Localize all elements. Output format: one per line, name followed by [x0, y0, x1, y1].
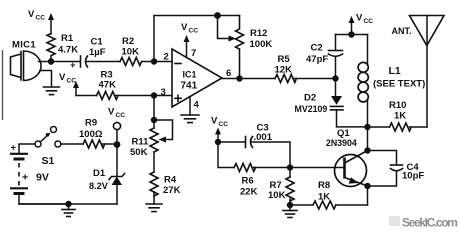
op-amp IC1 741: [161, 48, 232, 111]
wire R4 to ground: [153, 192, 155, 204]
svg-text:V: V: [181, 22, 188, 33]
node feedback top junction: [214, 12, 221, 19]
wire mic output to node A: [39, 61, 52, 63]
node R6/R7/C3 junction: [287, 164, 293, 170]
svg-text:CC: CC: [116, 112, 126, 119]
node B junction (feedback tap): [151, 58, 157, 64]
wire Vcc junction down to R6: [218, 142, 234, 168]
capacitor C4: [368, 151, 425, 187]
resistor R2: [120, 36, 142, 66]
wire pin 6 output: [222, 78, 275, 80]
node pin3 junction: [151, 92, 157, 98]
Vcc symbol above pin 7: [181, 22, 198, 58]
ground (R7): [283, 205, 297, 218]
svg-text:3: 3: [161, 87, 166, 98]
svg-text:S1: S1: [42, 155, 55, 167]
wire pin3 down to R11: [153, 96, 155, 129]
svg-text:R4: R4: [164, 175, 177, 186]
wire R11 to R4: [153, 152, 155, 172]
svg-text:V: V: [108, 107, 115, 118]
svg-text:+: +: [22, 172, 28, 184]
svg-text:R2: R2: [122, 36, 134, 47]
svg-text:CC: CC: [189, 28, 199, 35]
svg-text:1K: 1K: [318, 192, 330, 203]
svg-text:(SEE TEXT): (SEE TEXT): [373, 79, 425, 90]
svg-text:10pF: 10pF: [402, 171, 424, 182]
svg-text:22K: 22K: [240, 187, 258, 198]
svg-text:IC1: IC1: [183, 70, 197, 80]
node A junction: [48, 58, 54, 64]
page border left edge: [2, 50, 4, 120]
svg-text:MV2109: MV2109: [295, 104, 328, 114]
svg-text:10K: 10K: [268, 190, 286, 201]
wire node A to C1: [51, 61, 80, 63]
svg-text:6: 6: [226, 68, 231, 79]
node L1 bottom junction: [364, 124, 370, 130]
svg-text:2N3904: 2N3904: [326, 138, 357, 148]
svg-text:9V: 9V: [36, 172, 49, 184]
Vcc symbol above C3: [211, 116, 228, 143]
capacitor C3: [218, 123, 290, 168]
svg-text:1µF: 1µF: [89, 47, 106, 58]
svg-text:741: 741: [181, 81, 198, 92]
svg-text:47pF: 47pF: [306, 54, 328, 65]
watermark SeekIC.com: [389, 216, 400, 226]
svg-text:27K: 27K: [163, 185, 181, 196]
capacitor C1: [70, 37, 106, 72]
wire base: [290, 167, 345, 169]
bottom rail: [19, 203, 117, 205]
Vcc symbol above R3: [59, 72, 79, 96]
node Vcc output junction: [114, 141, 121, 148]
svg-text:+: +: [70, 60, 76, 71]
svg-text:R11: R11: [132, 137, 150, 148]
svg-text:+: +: [11, 143, 17, 154]
antenna ANT: [392, 16, 445, 128]
svg-text:CC: CC: [67, 78, 77, 85]
svg-text:CC: CC: [36, 15, 46, 22]
svg-text:CC: CC: [219, 121, 229, 128]
resistor R6: [234, 164, 258, 198]
node R11 top tap: [151, 117, 157, 123]
svg-text:8.2V: 8.2V: [89, 181, 109, 191]
svg-text:V: V: [59, 72, 66, 83]
svg-text:CC: CC: [364, 18, 374, 25]
resistor R5: [275, 54, 297, 83]
capacitor C2: [306, 35, 343, 79]
svg-text:R8: R8: [318, 180, 330, 191]
resistor R3: [76, 70, 172, 100]
resistor R4: [150, 172, 181, 196]
svg-text:R12: R12: [250, 28, 267, 39]
Vcc terminal circle: [108, 107, 125, 145]
Vcc symbol top-left: [28, 9, 54, 34]
transistor Q1 2N3904: [326, 128, 368, 187]
svg-text:ANT.: ANT.: [392, 26, 412, 36]
wire R2 to pin 2: [142, 61, 173, 63]
svg-text:1K: 1K: [394, 111, 406, 122]
battery +9V: [10, 143, 69, 205]
wire top rail to L1/C2: [336, 34, 368, 36]
svg-text:R9: R9: [85, 118, 97, 129]
svg-text:V: V: [28, 9, 35, 20]
node output junction: [236, 75, 242, 81]
wire R6 to R7 node: [254, 167, 291, 169]
resistor R9: [79, 118, 117, 149]
node Vcc tap top right: [348, 31, 354, 37]
ground (R4): [146, 204, 162, 212]
wire emitter down to R8: [367, 186, 369, 205]
ground (microphone): [44, 87, 60, 95]
svg-text:R10: R10: [389, 100, 406, 111]
potentiometer R11: [130, 120, 173, 158]
resistor R7: [268, 168, 294, 206]
svg-text:R1: R1: [61, 33, 74, 44]
wire S1 to R9: [61, 143, 83, 145]
svg-text:47K: 47K: [99, 80, 117, 91]
svg-text:D1: D1: [93, 168, 106, 179]
resistor R1: [47, 33, 78, 64]
resistor R8: [290, 180, 368, 209]
svg-text:V: V: [211, 116, 218, 127]
svg-text:R6: R6: [242, 176, 254, 187]
wire pin 4 to ground: [189, 97, 191, 115]
svg-text:R5: R5: [278, 54, 291, 65]
svg-text:L1: L1: [389, 65, 401, 77]
wire L1 bottom to collector: [367, 127, 369, 151]
svg-text:MIC1: MIC1: [12, 40, 36, 51]
svg-text:4.7K: 4.7K: [58, 45, 78, 56]
svg-text:SeekIC.com: SeekIC.com: [402, 216, 457, 230]
zener diode D1 8.2V: [89, 145, 125, 205]
svg-text:4: 4: [194, 100, 200, 111]
svg-text:2: 2: [164, 52, 169, 63]
wire C1 to R2: [86, 61, 120, 63]
node R7/R8 junction: [287, 202, 293, 208]
microphone MIC1: [11, 40, 42, 81]
ground (op-amp pin 4): [181, 115, 199, 123]
svg-text:7: 7: [191, 48, 196, 59]
node C2/D2 junction: [332, 75, 338, 81]
svg-text:V: V: [356, 13, 363, 24]
switch S1: [35, 127, 61, 168]
ground (supply rail): [62, 204, 75, 217]
varactor diode D2 MV2109: [295, 79, 368, 127]
node bottom rail ground junction: [65, 201, 71, 207]
svg-text:100K: 100K: [250, 39, 273, 50]
wire R5 to varactor node: [295, 78, 336, 80]
inductor L1: [358, 35, 425, 128]
wire feedback riser: [154, 16, 240, 62]
svg-text:C1: C1: [91, 37, 104, 48]
potentiometer R12: [218, 16, 273, 79]
resistor R10: [368, 100, 428, 131]
svg-text:D2: D2: [304, 93, 316, 104]
node emitter junction: [364, 183, 370, 189]
wire mic lower terminal to ground: [40, 71, 52, 88]
node Vcc/C3 junction: [215, 139, 221, 145]
svg-text:C2: C2: [311, 43, 323, 54]
node collector junction: [364, 147, 370, 153]
svg-text:50K: 50K: [130, 147, 148, 158]
Vcc symbol top right: [349, 13, 374, 35]
